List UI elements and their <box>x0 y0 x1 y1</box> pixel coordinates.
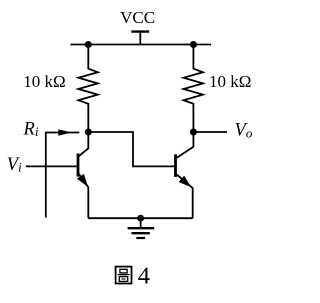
Q2 collector wire <box>177 132 194 158</box>
junction dot right <box>190 41 197 48</box>
resistor R1 <box>78 45 97 133</box>
svg-text:10 kΩ: 10 kΩ <box>23 72 65 91</box>
node dot Vo <box>190 129 197 136</box>
Q1 emitter arrowhead <box>77 174 88 187</box>
transistor Q1 base bar <box>77 154 80 177</box>
junction dot left <box>85 41 92 48</box>
Q2 emitter arrowhead <box>179 176 192 188</box>
Vo output wire <box>193 131 227 133</box>
transistor Q2 base bar <box>174 154 177 177</box>
Q1 collector wire <box>79 132 89 156</box>
Q2 emitter wire <box>177 175 193 219</box>
svg-text:4: 4 <box>138 263 150 290</box>
Ri input impedance arrow <box>46 129 80 217</box>
Q1 emitter wire <box>79 174 89 218</box>
ground junction dot <box>137 215 144 222</box>
VCC supply symbol <box>131 32 149 45</box>
caption character TU (figure) drawn as vector <box>116 267 132 284</box>
resistor R2 <box>184 45 203 133</box>
Vi input wire <box>26 165 77 167</box>
coupling wire node A to Q2 base <box>88 132 175 166</box>
node dot A (Q1 collector) <box>85 129 92 136</box>
bottom rail wire <box>88 217 192 219</box>
ground symbol <box>128 218 155 238</box>
top rail wire <box>71 44 212 46</box>
svg-text:VCC: VCC <box>120 8 155 27</box>
svg-text:10 kΩ: 10 kΩ <box>209 72 251 91</box>
